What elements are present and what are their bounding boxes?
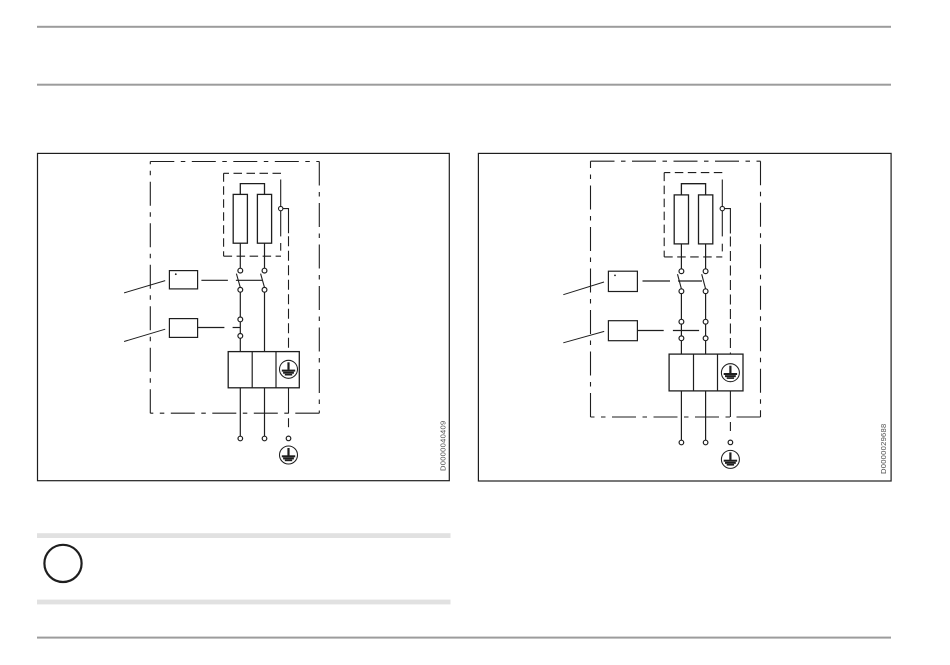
svg-text:D0000040409: D0000040409 [438, 421, 447, 471]
svg-text:D0000029688: D0000029688 [879, 424, 888, 474]
